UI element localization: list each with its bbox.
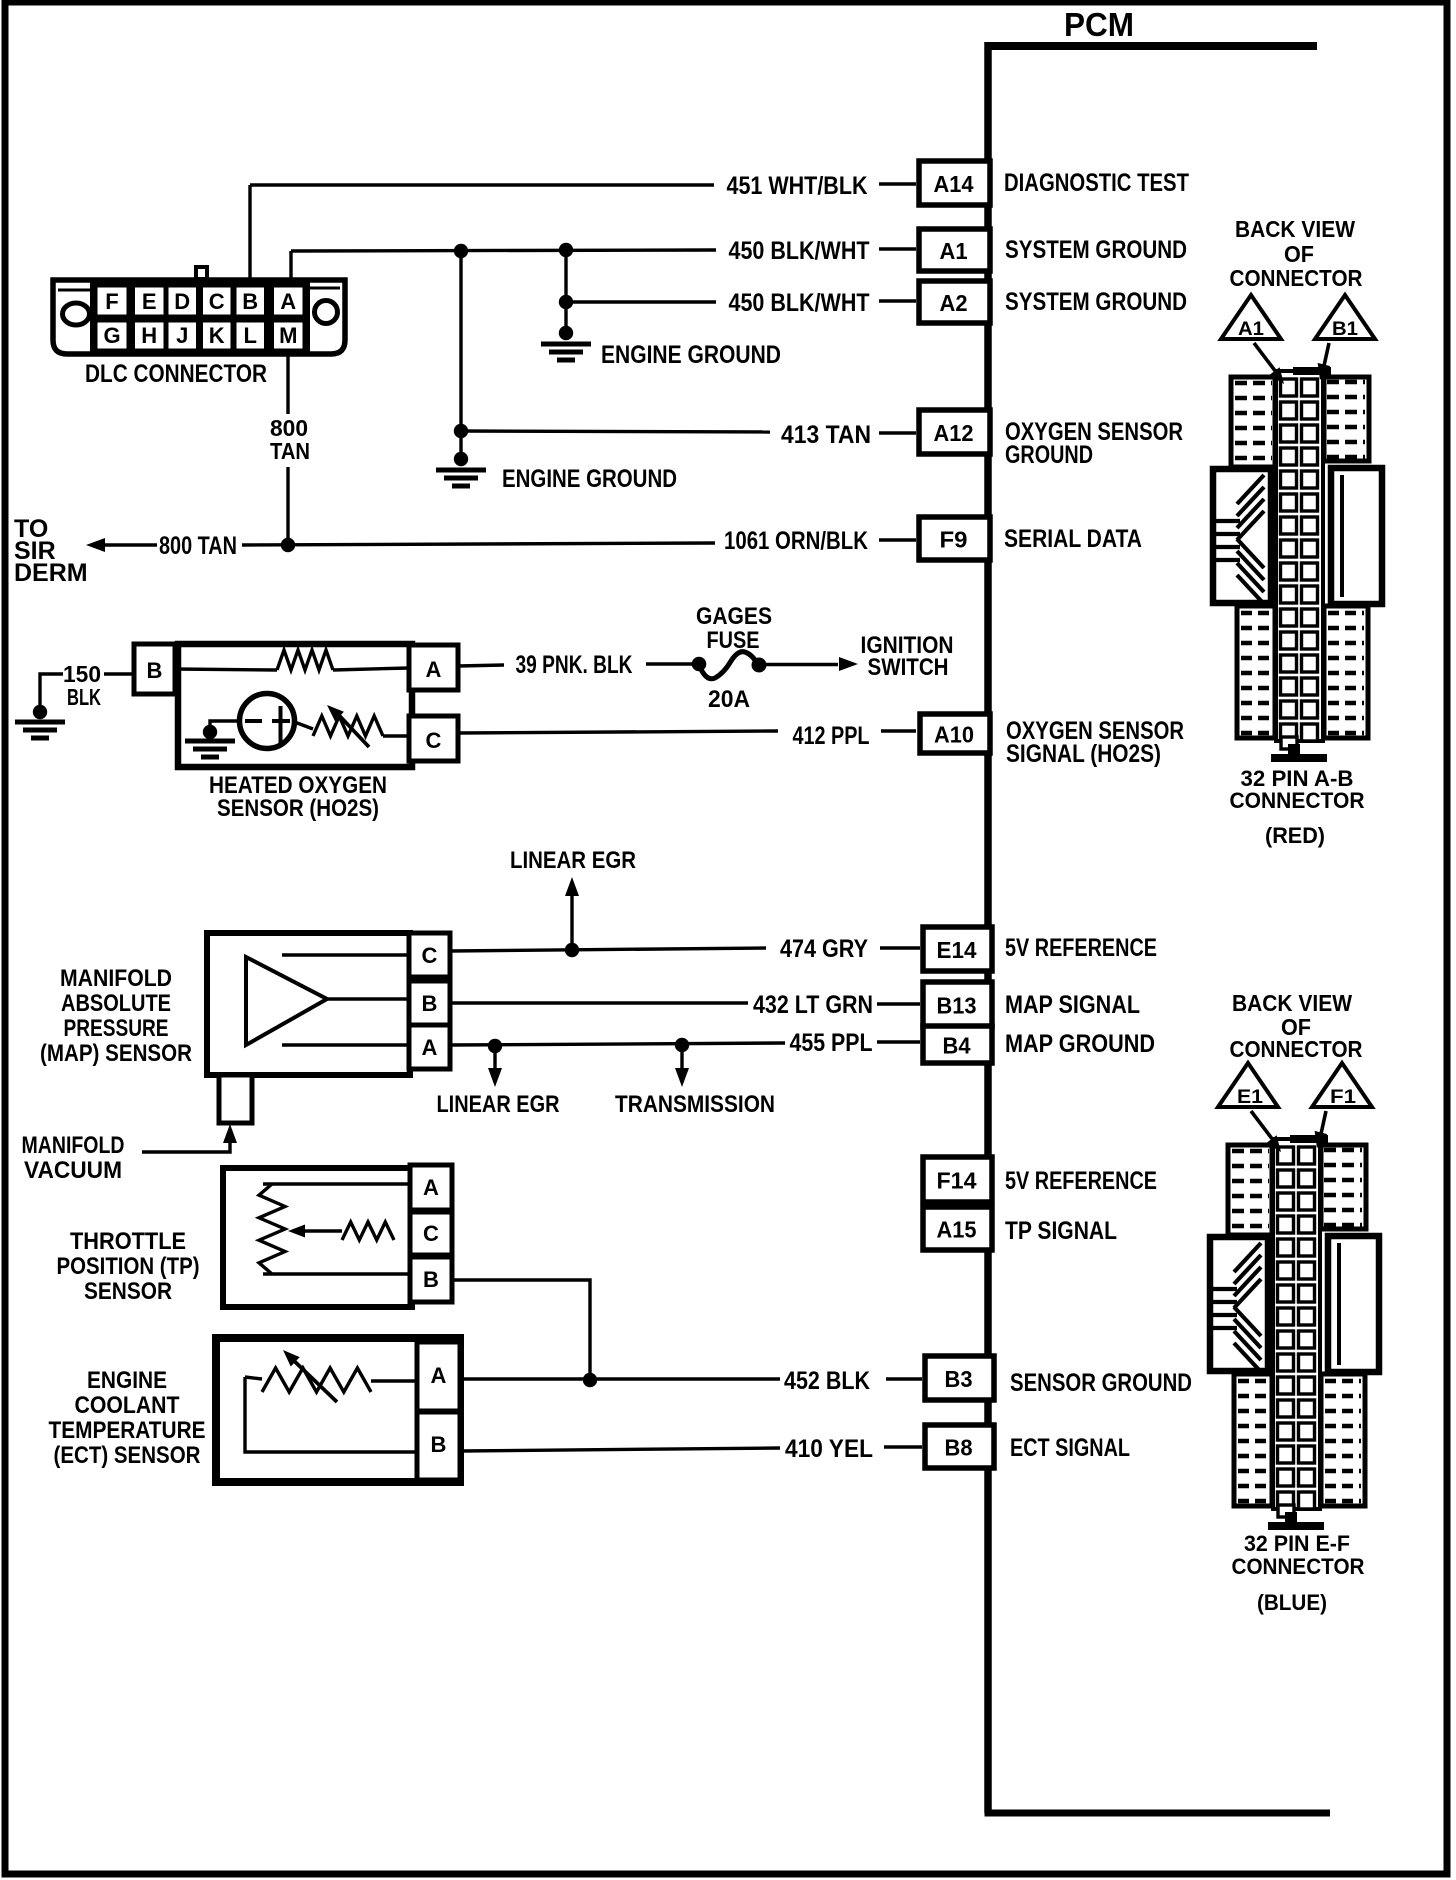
svg-text:A: A: [423, 1175, 439, 1200]
DLC pin M: [273, 321, 305, 350]
svg-text:F14: F14: [937, 1168, 977, 1194]
wire 452 BLK to B3: [460, 1377, 780, 1380]
svg-text:SIGNAL (HO2S): SIGNAL (HO2S): [1006, 740, 1161, 768]
ECT variable resistor: [245, 1377, 262, 1379]
svg-text:CONNECTOR: CONNECTOR: [1230, 788, 1365, 813]
wire 450 BLK/WHT from DLC pin A to A1: [289, 251, 292, 281]
32 pin A-B connector (red) back view: [1213, 295, 1382, 762]
PCM pin A12: [919, 410, 990, 454]
svg-text:1061 ORN/BLK: 1061 ORN/BLK: [724, 527, 868, 555]
MAP pin C box: [409, 933, 450, 977]
svg-text:474 GRY: 474 GRY: [780, 935, 868, 963]
svg-text:THROTTLE: THROTTLE: [70, 1228, 186, 1255]
DLC inner line left: [58, 289, 92, 292]
PCM pin B8: [925, 1425, 994, 1468]
svg-text:MANIFOLD: MANIFOLD: [60, 965, 172, 992]
DLC pin K: [202, 321, 233, 350]
svg-text:412 PPL: 412 PPL: [793, 722, 870, 750]
MAP vacuum port: [219, 1075, 252, 1123]
svg-text:C: C: [422, 943, 438, 968]
svg-text:SENSOR (HO2S): SENSOR (HO2S): [217, 795, 379, 822]
svg-text:H: H: [141, 323, 157, 348]
ECT sensor box: [216, 1338, 460, 1482]
svg-text:455 PPL: 455 PPL: [790, 1029, 873, 1057]
DLC pin D: [167, 286, 198, 316]
svg-text:D: D: [174, 289, 190, 314]
svg-text:20A: 20A: [708, 686, 750, 713]
svg-text:LINEAR EGR: LINEAR EGR: [437, 1091, 560, 1118]
junction dot: [559, 243, 573, 257]
svg-text:B: B: [147, 658, 163, 683]
svg-text:5V REFERENCE: 5V REFERENCE: [1005, 934, 1157, 962]
wire 800 TAN from DLC pin M: [286, 354, 289, 414]
svg-text:39 PNK. BLK: 39 PNK. BLK: [516, 651, 633, 679]
DLC pin A: [273, 286, 305, 316]
svg-text:ENGINE: ENGINE: [87, 1367, 167, 1394]
svg-text:J: J: [176, 323, 188, 348]
plus sign: [272, 719, 290, 723]
svg-text:C: C: [209, 289, 225, 314]
svg-text:A: A: [426, 657, 442, 682]
svg-text:452 BLK: 452 BLK: [784, 1367, 870, 1395]
DLC pin B: [235, 286, 266, 316]
throttle position sensor box: [223, 1168, 412, 1307]
svg-text:BACK VIEW: BACK VIEW: [1235, 216, 1355, 242]
svg-text:(RED): (RED): [1265, 823, 1325, 848]
wire down from junction: [459, 251, 462, 459]
wire to engine ground 1: [564, 250, 567, 333]
junction dot TP B / ECT A: [583, 1373, 597, 1387]
MAP internal wire B: [327, 997, 409, 1000]
TP pin C box: [410, 1212, 452, 1255]
svg-text:TAN: TAN: [270, 438, 310, 464]
svg-text:32 PIN E-F: 32 PIN E-F: [1244, 1531, 1350, 1556]
svg-text:CONNECTOR: CONNECTOR: [1230, 1036, 1363, 1062]
svg-text:LINEAR EGR: LINEAR EGR: [510, 847, 636, 874]
svg-text:TP SIGNAL: TP SIGNAL: [1005, 1217, 1117, 1245]
engine ground 2: [454, 452, 468, 466]
DLC pin F: [96, 286, 128, 316]
DLC top tab: [194, 265, 209, 280]
svg-text:DERM: DERM: [14, 559, 88, 587]
svg-text:BLK: BLK: [67, 684, 101, 710]
svg-text:B: B: [423, 1267, 439, 1292]
DLC pin H: [134, 321, 166, 350]
svg-text:ABSOLUTE: ABSOLUTE: [61, 990, 171, 1017]
HO2S pin B box: [134, 644, 175, 694]
svg-text:SERIAL DATA: SERIAL DATA: [1004, 525, 1142, 553]
HO2S heater resistor: [175, 669, 277, 670]
svg-text:TRANSMISSION: TRANSMISSION: [615, 1091, 775, 1118]
svg-text:B: B: [431, 1432, 447, 1457]
svg-text:COOLANT: COOLANT: [75, 1392, 180, 1419]
arrow through resistor: [335, 711, 369, 747]
svg-text:PCM: PCM: [1064, 6, 1134, 43]
svg-text:C: C: [423, 1221, 439, 1246]
DLC pin J: [167, 321, 198, 350]
svg-text:A12: A12: [934, 420, 974, 446]
MAP internal wire A: [282, 1043, 409, 1046]
32 pin E-F connector (blue) back view: [1210, 1063, 1379, 1530]
MAP sensor box: [207, 933, 410, 1075]
svg-text:F: F: [105, 289, 118, 314]
svg-text:SYSTEM GROUND: SYSTEM GROUND: [1005, 288, 1187, 316]
svg-text:OF: OF: [1284, 241, 1314, 267]
junction dot: [281, 538, 295, 552]
HO2S pin C box: [409, 716, 458, 761]
svg-text:MAP GROUND: MAP GROUND: [1005, 1030, 1155, 1058]
svg-text:SYSTEM GROUND: SYSTEM GROUND: [1005, 236, 1187, 264]
PCM pin B4: [923, 1026, 992, 1063]
svg-text:B4: B4: [943, 1033, 971, 1059]
svg-text:451 WHT/BLK: 451 WHT/BLK: [727, 172, 868, 200]
svg-text:CONNECTOR: CONNECTOR: [1230, 265, 1363, 291]
svg-text:C: C: [426, 728, 442, 753]
svg-text:450 BLK/WHT: 450 BLK/WHT: [729, 289, 870, 317]
svg-text:A: A: [431, 1363, 447, 1388]
junction dot: [559, 295, 573, 309]
PCM pin A2: [919, 281, 990, 323]
wire to ignition switch: [766, 663, 838, 666]
svg-text:BACK VIEW: BACK VIEW: [1232, 990, 1352, 1016]
ECT resistor arrow: [290, 1357, 337, 1402]
DLC left oval: [63, 303, 90, 325]
TP resistor: [263, 1182, 410, 1185]
HO2S sensor element circle: [240, 694, 295, 749]
svg-text:B13: B13: [937, 993, 977, 1019]
svg-text:5V REFERENCE: 5V REFERENCE: [1005, 1167, 1157, 1195]
wire 412 PPL to A10: [458, 731, 778, 733]
PCM pin A10: [920, 714, 990, 753]
svg-text:GROUND: GROUND: [1005, 441, 1093, 469]
wire 451 WHT/BLK from DLC pin B to A14: [248, 185, 251, 281]
svg-text:413 TAN: 413 TAN: [781, 421, 871, 449]
svg-text:ECT SIGNAL: ECT SIGNAL: [1010, 1434, 1130, 1462]
svg-text:A: A: [280, 289, 296, 314]
DLC pin G: [96, 321, 128, 350]
svg-text:SENSOR GROUND: SENSOR GROUND: [1010, 1369, 1192, 1397]
svg-text:MANIFOLD: MANIFOLD: [22, 1132, 125, 1159]
TP pin A box: [410, 1165, 452, 1210]
svg-text:B1: B1: [1332, 319, 1358, 340]
wire 450 BLK/WHT to A2: [566, 300, 716, 303]
TP pin B box: [410, 1257, 452, 1302]
TP pin B wire down to sensor ground: [452, 1280, 590, 1380]
gages fuse: [692, 657, 707, 672]
svg-text:A14: A14: [934, 171, 974, 197]
svg-text:VACUUM: VACUUM: [24, 1157, 122, 1184]
svg-text:SENSOR: SENSOR: [84, 1278, 172, 1305]
HO2S pin A box: [409, 645, 458, 690]
ECT pin A box: [417, 1342, 460, 1411]
MAP internal wire C: [282, 953, 409, 956]
wire 474 GRY to E14 / LINEAR EGR branch: [450, 948, 766, 951]
PCM pin A1: [919, 229, 990, 271]
svg-text:A: A: [422, 1035, 438, 1060]
PCM pin E14: [923, 927, 992, 971]
svg-text:800 TAN: 800 TAN: [159, 532, 237, 560]
PCM box: [984, 42, 992, 1813]
MAP amplifier triangle: [246, 957, 327, 1045]
svg-text:PRESSURE: PRESSURE: [64, 1015, 169, 1042]
svg-text:410 YEL: 410 YEL: [785, 1435, 873, 1463]
svg-text:SWITCH: SWITCH: [868, 654, 949, 681]
PCM pin A15: [923, 1207, 992, 1250]
svg-text:E14: E14: [937, 937, 977, 963]
MAP pin A box: [409, 1025, 450, 1069]
DLC connector shell: [53, 280, 345, 354]
svg-text:FUSE: FUSE: [707, 627, 760, 654]
svg-text:L: L: [244, 323, 257, 348]
junction dot: [454, 424, 468, 438]
svg-text:ENGINE GROUND: ENGINE GROUND: [502, 465, 677, 493]
PCM pin A14: [919, 161, 990, 205]
svg-text:(MAP) SENSOR: (MAP) SENSOR: [40, 1040, 192, 1067]
svg-text:MAP SIGNAL: MAP SIGNAL: [1005, 991, 1140, 1019]
svg-text:A2: A2: [940, 290, 968, 316]
svg-text:DLC CONNECTOR: DLC CONNECTOR: [85, 360, 267, 388]
DLC right circle: [315, 301, 338, 324]
wire 432 LT GRN to B13: [450, 1001, 748, 1004]
MAP pin B box: [409, 981, 450, 1025]
DLC pin E: [134, 286, 166, 316]
svg-text:CONNECTOR: CONNECTOR: [1232, 1554, 1365, 1579]
svg-text:GAGES: GAGES: [696, 603, 772, 630]
svg-text:M: M: [279, 323, 297, 348]
DLC inner line right: [308, 287, 340, 290]
svg-text:B: B: [242, 289, 258, 314]
svg-text:(ECT) SENSOR: (ECT) SENSOR: [54, 1442, 201, 1469]
minus sign: [245, 719, 262, 723]
svg-text:A15: A15: [937, 1217, 977, 1243]
svg-text:ENGINE GROUND: ENGINE GROUND: [601, 341, 781, 369]
HO2S variable resistor: [295, 722, 314, 729]
svg-text:A1: A1: [940, 238, 968, 264]
DLC pin C: [202, 286, 233, 316]
wire 455 PPL to B4 / branches: [450, 1043, 785, 1045]
svg-text:E: E: [142, 289, 157, 314]
svg-text:F1: F1: [1330, 1087, 1356, 1108]
heated oxygen sensor HO2S box: [178, 644, 412, 767]
TP wiper: [342, 1222, 394, 1240]
PCM pin F14: [923, 1157, 992, 1202]
svg-text:432 LT GRN: 432 LT GRN: [753, 991, 873, 1019]
junction dot: [454, 244, 468, 258]
ECT pin B box: [417, 1412, 460, 1480]
svg-text:450 BLK/WHT: 450 BLK/WHT: [729, 237, 870, 265]
svg-text:B3: B3: [945, 1366, 973, 1392]
PCM pin F9: [919, 517, 990, 560]
svg-text:POSITION (TP): POSITION (TP): [57, 1253, 200, 1280]
svg-text:E1: E1: [1237, 1087, 1263, 1108]
wire 39 PNK.BLK to fuse: [458, 665, 504, 666]
svg-text:A10: A10: [934, 722, 974, 748]
svg-text:K: K: [209, 323, 225, 348]
arrow to SIR DERM: [86, 538, 105, 552]
svg-text:(BLUE): (BLUE): [1257, 1590, 1327, 1615]
svg-text:B8: B8: [945, 1435, 973, 1461]
PCM pin B13: [923, 982, 992, 1027]
wire 410 YEL to B8: [460, 1448, 780, 1451]
PCM pin B3: [925, 1356, 994, 1400]
DLC pin L: [235, 321, 266, 350]
svg-text:A1: A1: [1238, 319, 1264, 340]
svg-text:DIAGNOSTIC TEST: DIAGNOSTIC TEST: [1004, 169, 1189, 197]
HO2S internal ground: [210, 721, 240, 727]
svg-text:TEMPERATURE: TEMPERATURE: [49, 1417, 206, 1444]
wire 150 BLK to ground: [104, 672, 134, 675]
svg-text:B: B: [422, 991, 438, 1016]
svg-text:G: G: [103, 323, 120, 348]
svg-text:F9: F9: [940, 527, 968, 553]
